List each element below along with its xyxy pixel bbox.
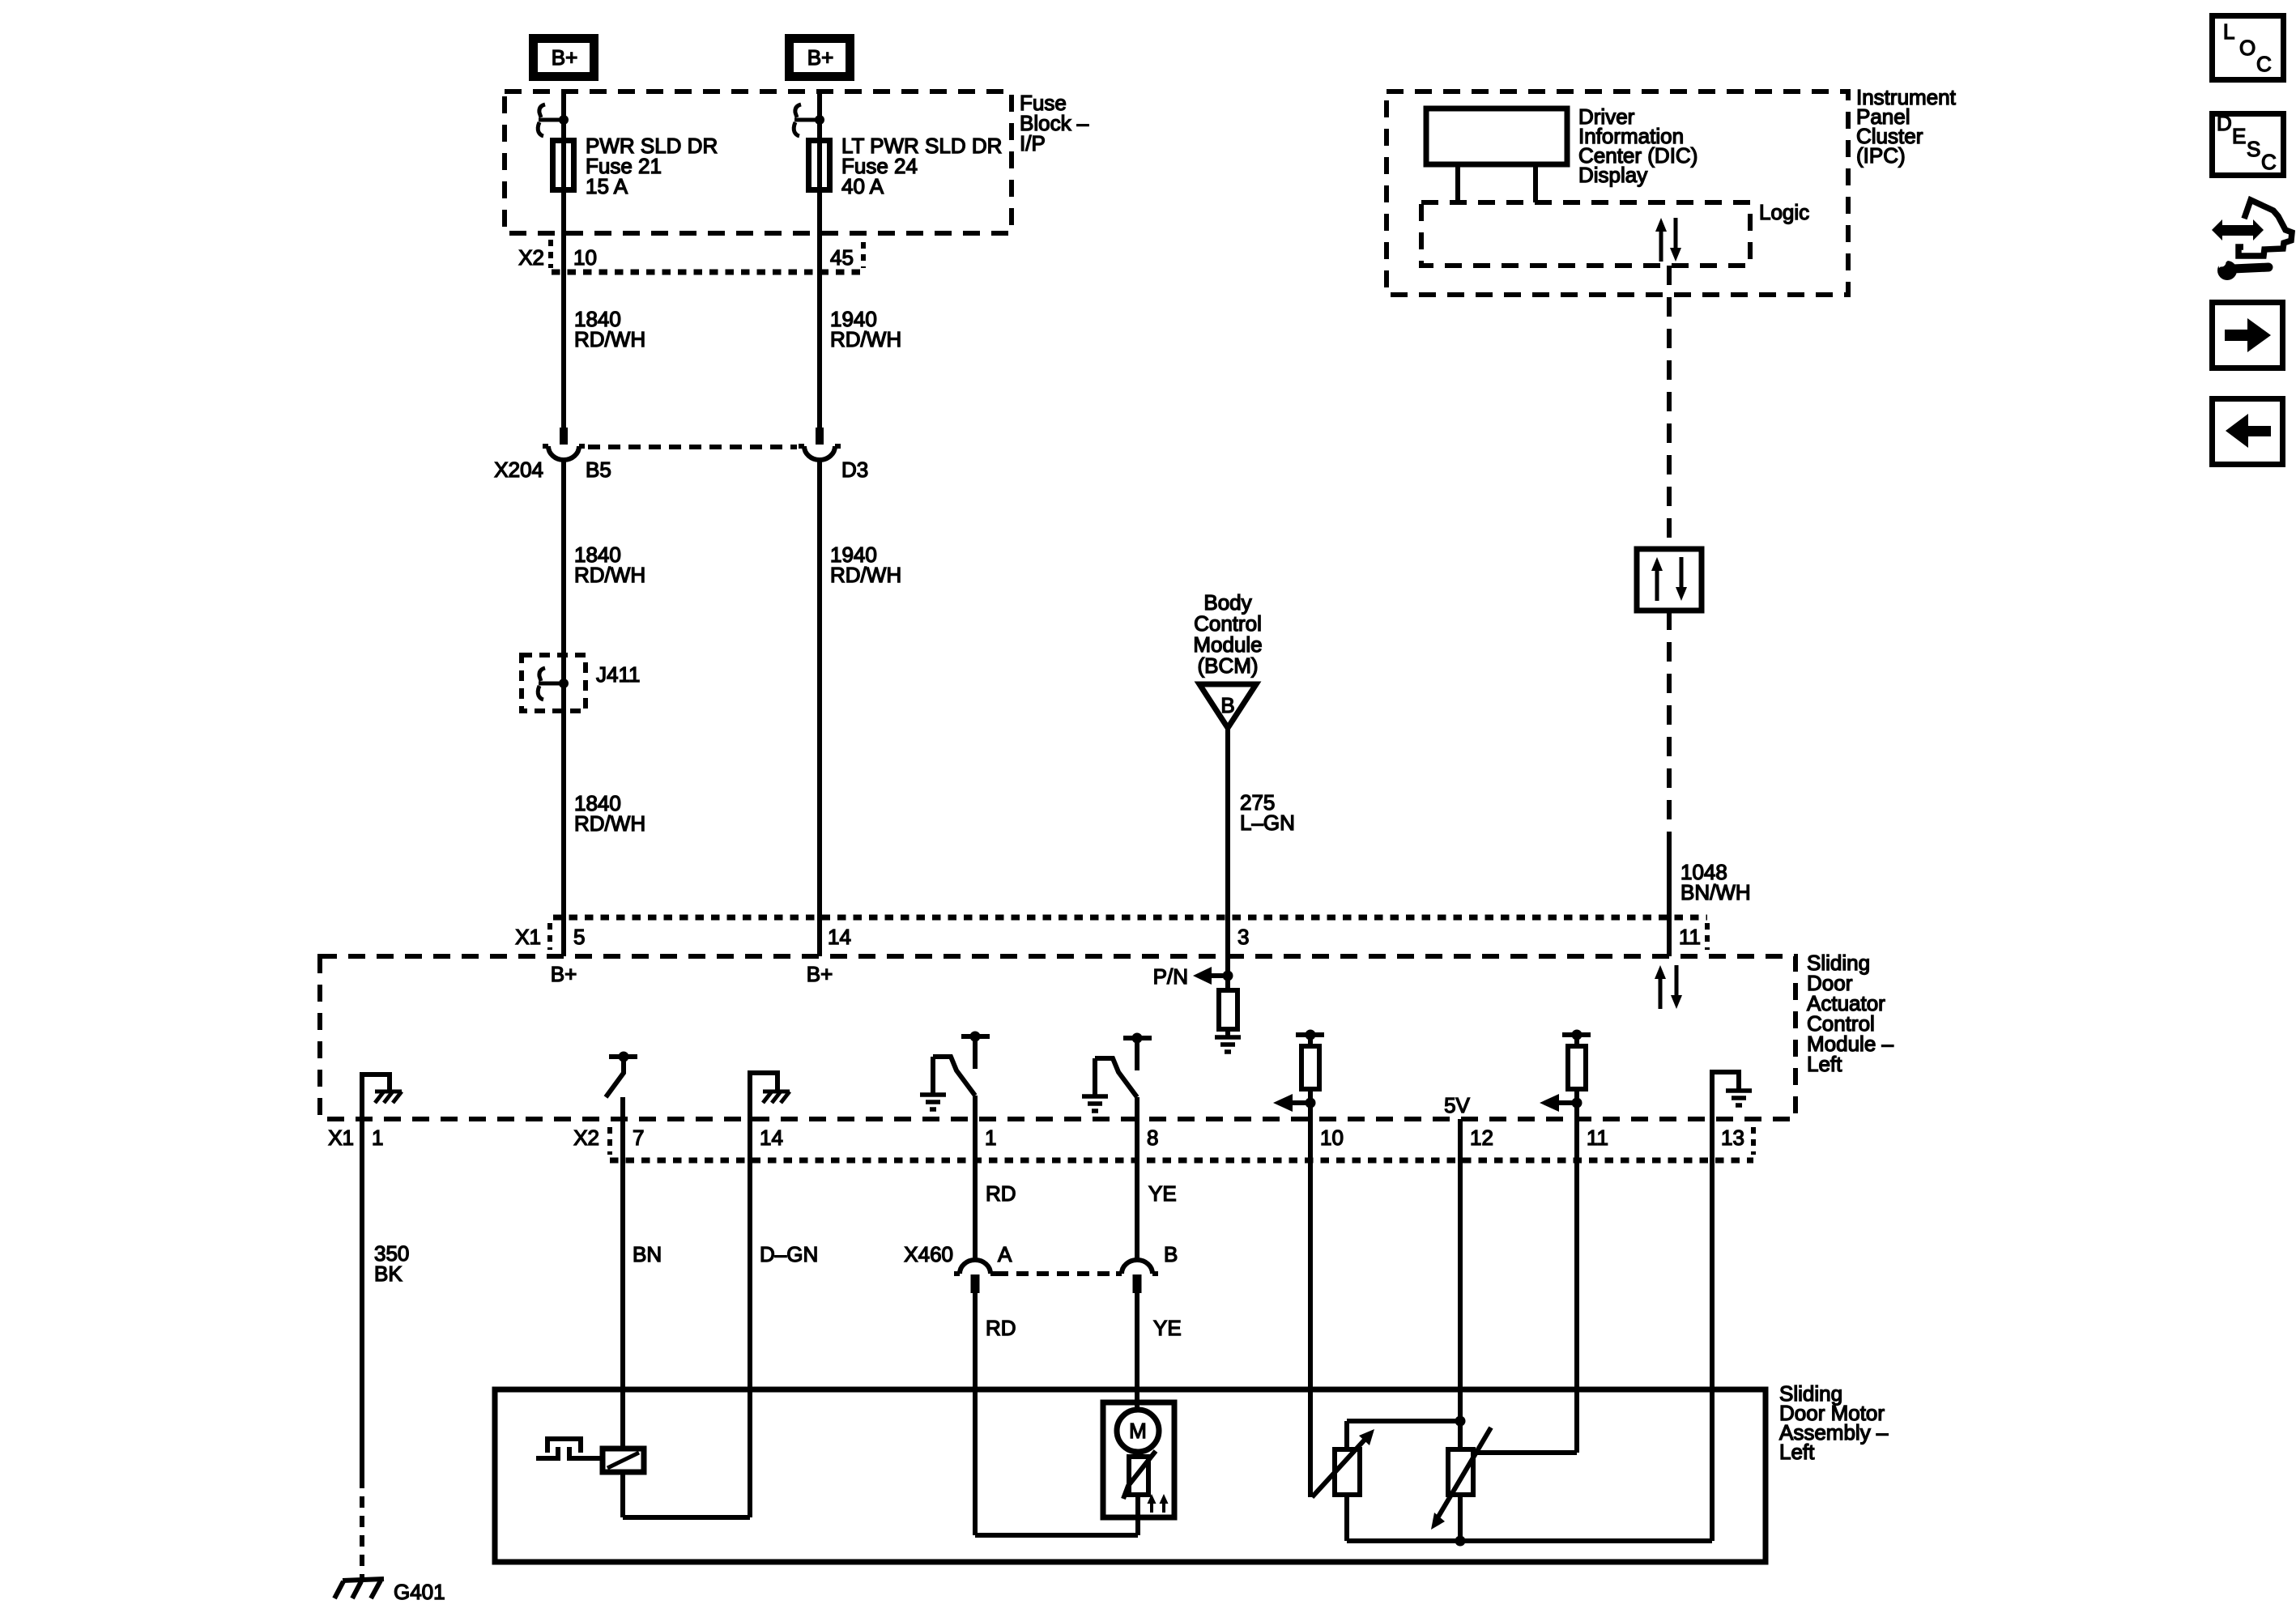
svg-text:B+: B+ — [551, 962, 577, 986]
svg-text:X204: X204 — [494, 457, 543, 482]
svg-text:C: C — [2261, 150, 2277, 174]
svg-text:RD/WH: RD/WH — [574, 327, 645, 351]
svg-text:5V: 5V — [1444, 1093, 1470, 1117]
svg-text:X2: X2 — [518, 245, 544, 270]
svg-text:RD: RD — [986, 1316, 1016, 1340]
svg-text:Left: Left — [1779, 1440, 1815, 1464]
svg-text:10: 10 — [1320, 1126, 1344, 1150]
svg-text:10: 10 — [573, 245, 597, 270]
svg-text:8: 8 — [1147, 1126, 1158, 1150]
svg-text:B+: B+ — [552, 45, 578, 70]
svg-text:I/P: I/P — [1020, 131, 1046, 155]
svg-text:P/N: P/N — [1153, 964, 1188, 989]
svg-text:RD/WH: RD/WH — [574, 811, 645, 836]
svg-text:X1: X1 — [328, 1126, 354, 1150]
svg-text:Left: Left — [1807, 1052, 1842, 1076]
svg-text:7: 7 — [633, 1126, 644, 1150]
svg-text:G401: G401 — [394, 1580, 445, 1604]
svg-text:D: D — [2217, 111, 2232, 135]
svg-text:B5: B5 — [586, 457, 611, 482]
svg-text:L: L — [2223, 19, 2234, 44]
svg-text:14: 14 — [828, 925, 851, 949]
svg-text:5: 5 — [573, 925, 585, 949]
svg-text:YE: YE — [1153, 1316, 1182, 1340]
svg-text:O: O — [2239, 36, 2256, 60]
svg-text:45: 45 — [830, 245, 854, 270]
svg-text:B+: B+ — [807, 45, 834, 70]
svg-text:YE: YE — [1148, 1181, 1177, 1206]
svg-text:RD/WH: RD/WH — [574, 563, 645, 587]
svg-text:13: 13 — [1721, 1126, 1744, 1150]
svg-text:X1: X1 — [515, 925, 541, 949]
svg-text:11: 11 — [1587, 1126, 1608, 1150]
svg-text:1: 1 — [372, 1126, 383, 1150]
svg-text:D3: D3 — [841, 457, 868, 482]
svg-text:40 A: 40 A — [841, 174, 884, 198]
svg-text:B: B — [1220, 693, 1234, 717]
svg-text:C: C — [2256, 52, 2272, 76]
svg-text:(IPC): (IPC) — [1856, 143, 1906, 168]
svg-text:X2: X2 — [573, 1126, 599, 1150]
svg-text:15 A: 15 A — [586, 174, 628, 198]
svg-text:11: 11 — [1679, 925, 1701, 949]
svg-text:S: S — [2247, 137, 2260, 161]
svg-text:14: 14 — [760, 1126, 783, 1150]
svg-text:M: M — [1129, 1419, 1147, 1443]
svg-text:B+: B+ — [807, 962, 833, 986]
svg-text:Display: Display — [1578, 163, 1647, 187]
svg-text:J411: J411 — [596, 662, 640, 687]
svg-text:Logic: Logic — [1759, 200, 1809, 224]
svg-text:BN/WH: BN/WH — [1680, 880, 1751, 904]
svg-text:12: 12 — [1470, 1126, 1493, 1150]
svg-text:A: A — [998, 1242, 1012, 1266]
svg-text:RD/WH: RD/WH — [830, 563, 901, 587]
svg-text:(BCM): (BCM) — [1197, 653, 1258, 678]
svg-text:1: 1 — [985, 1126, 996, 1150]
svg-text:L–GN: L–GN — [1240, 811, 1295, 835]
svg-text:X460: X460 — [904, 1242, 953, 1266]
svg-text:B: B — [1164, 1242, 1178, 1266]
svg-text:BN: BN — [633, 1242, 662, 1266]
svg-text:RD/WH: RD/WH — [830, 327, 901, 351]
svg-text:E: E — [2232, 124, 2246, 148]
svg-text:D–GN: D–GN — [760, 1242, 818, 1266]
svg-text:RD: RD — [986, 1181, 1016, 1206]
svg-text:BK: BK — [374, 1262, 403, 1286]
svg-text:3: 3 — [1237, 925, 1249, 949]
